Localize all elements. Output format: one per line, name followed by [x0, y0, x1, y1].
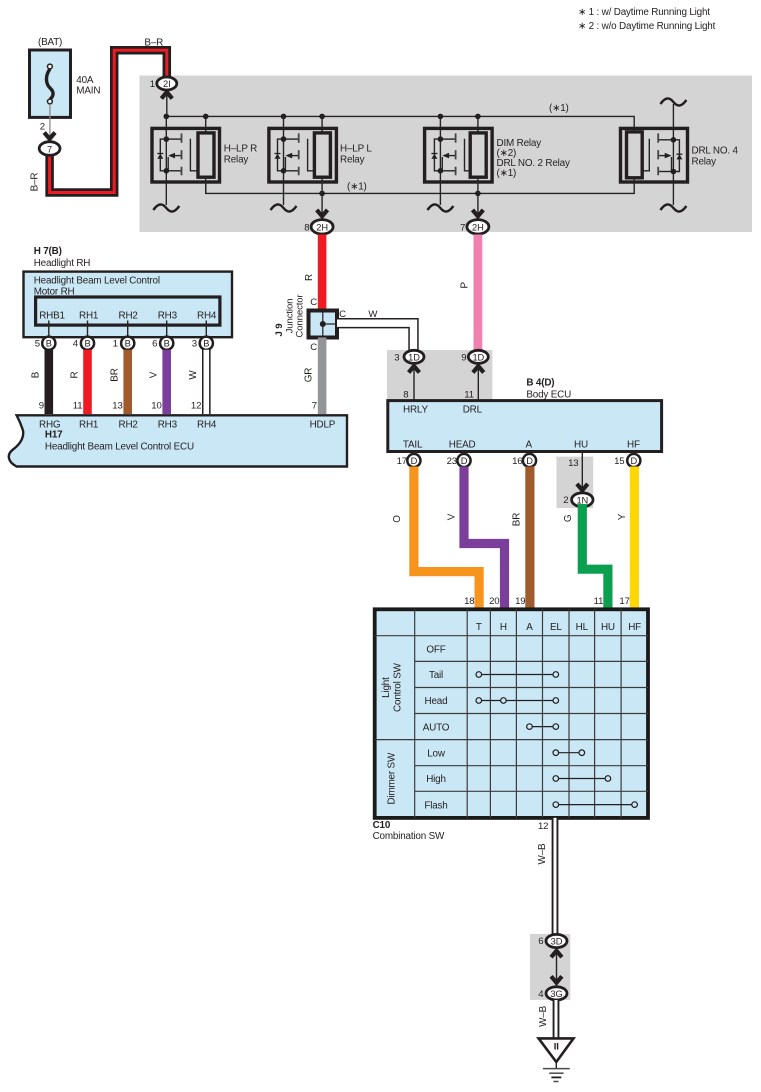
- svg-text:Relay: Relay: [224, 155, 249, 166]
- label P rotated: [459, 282, 470, 289]
- svg-text:∗ 2 : w/o Daytime Running Ligh: ∗ 2 : w/o Daytime Running Light: [578, 21, 716, 32]
- connector oval 2 1N: [572, 493, 593, 507]
- svg-text:2H: 2H: [472, 222, 484, 232]
- pin 4 B: [73, 337, 94, 350]
- arrow down into 2(1N): [577, 484, 588, 490]
- svg-text:W: W: [368, 309, 378, 320]
- pin 8 label body ecu: [403, 390, 408, 401]
- svg-text:RH4: RH4: [197, 419, 217, 430]
- wire P pink from 2H to 1D: [473, 235, 482, 352]
- arrow into connector 7: [44, 133, 55, 139]
- pin 4 label of 3G: [538, 989, 544, 1000]
- svg-text:4: 4: [538, 989, 544, 1000]
- body ecu bottom pin 23 D: [447, 452, 471, 468]
- pin 1 label of 2I: [150, 79, 155, 90]
- svg-text:Tail: Tail: [429, 670, 443, 681]
- svg-text:B: B: [31, 371, 42, 378]
- svg-text:12: 12: [538, 821, 548, 832]
- label W: [368, 309, 378, 320]
- svg-text:1: 1: [113, 339, 118, 350]
- arrow up into 2I: [161, 92, 172, 116]
- svg-text:B: B: [125, 339, 131, 349]
- svg-text:Body ECU: Body ECU: [526, 390, 571, 401]
- label 40A MAIN: [76, 75, 100, 97]
- svg-text:6: 6: [538, 936, 543, 947]
- svg-text:8: 8: [304, 223, 309, 234]
- svg-text:T: T: [476, 622, 482, 633]
- svg-text:2: 2: [40, 122, 45, 133]
- svg-text:10: 10: [151, 401, 161, 412]
- wire W white motor to ECU: [188, 350, 206, 414]
- svg-text:Low: Low: [427, 748, 446, 759]
- svg-text:H17: H17: [45, 430, 63, 441]
- gray panel behind 1N connector: [556, 457, 593, 508]
- svg-text:Connector: Connector: [295, 293, 306, 337]
- svg-text:11: 11: [464, 390, 474, 401]
- label (*1) top: [549, 103, 569, 114]
- svg-text:AUTO: AUTO: [423, 722, 450, 733]
- fuse 40A MAIN: [30, 50, 71, 142]
- connector oval 3 1D: [404, 350, 424, 363]
- svg-text:(∗1): (∗1): [549, 103, 569, 114]
- svg-text:6: 6: [152, 339, 157, 350]
- svg-text:Dimmer SW: Dimmer SW: [387, 752, 398, 804]
- note w/o DRL: [578, 21, 716, 32]
- svg-text:H–LP L: H–LP L: [340, 144, 372, 155]
- label H-LP L Relay: [340, 144, 372, 166]
- svg-text:Headlight Beam Level Control: Headlight Beam Level Control: [34, 276, 160, 287]
- pin 3 B: [192, 337, 213, 350]
- wire B black motor to ECU: [31, 350, 49, 414]
- label Junction Connector rotated: [285, 293, 306, 337]
- relay DIM U3: [425, 116, 493, 220]
- relay panel background: [140, 76, 753, 233]
- junction connector J9: [309, 311, 338, 338]
- svg-text:HF: HF: [628, 622, 641, 633]
- svg-text:HEAD: HEAD: [449, 440, 476, 451]
- svg-text:5: 5: [35, 339, 40, 350]
- svg-text:4: 4: [73, 339, 79, 350]
- ground II: [539, 1038, 574, 1081]
- svg-text:EL: EL: [550, 622, 562, 633]
- svg-text:GR: GR: [304, 368, 315, 383]
- label H-LP R Relay: [224, 144, 257, 166]
- wire W white from junction to 3(1D): [337, 323, 414, 352]
- pin 6 B: [152, 337, 173, 350]
- pin 2 label of 1N: [563, 495, 568, 506]
- wire GR gray from junction to HDLP: [318, 338, 327, 415]
- connector oval 7: [39, 142, 60, 156]
- label GR rotated: [304, 368, 315, 383]
- connector oval 4 3G: [546, 987, 567, 1000]
- svg-text:HDLP: HDLP: [310, 419, 336, 430]
- pin 7 label of 2H: [460, 223, 465, 234]
- svg-text:2I: 2I: [163, 79, 171, 89]
- pin 1 B: [113, 337, 135, 350]
- svg-text:D: D: [630, 456, 637, 466]
- svg-text:15: 15: [614, 456, 624, 467]
- svg-text:W–B: W–B: [537, 843, 548, 864]
- svg-text:P: P: [459, 282, 470, 289]
- bottom bus (*1): [206, 178, 635, 194]
- arrow down into 3G: [551, 976, 562, 982]
- svg-text:18: 18: [464, 596, 474, 607]
- svg-text:(BAT): (BAT): [38, 37, 62, 48]
- svg-text:Flash: Flash: [424, 800, 447, 811]
- top bus (*1): [166, 116, 634, 131]
- svg-text:1: 1: [150, 79, 155, 90]
- svg-text:R: R: [69, 371, 80, 378]
- svg-text:B: B: [46, 339, 52, 349]
- svg-text:H–LP R: H–LP R: [224, 144, 257, 155]
- svg-text:17: 17: [397, 456, 407, 467]
- Body ECU labels: [526, 378, 571, 401]
- svg-text:23: 23: [447, 456, 457, 467]
- svg-text:W–B: W–B: [538, 1005, 549, 1026]
- svg-text:HF: HF: [627, 440, 640, 451]
- svg-text:RH3: RH3: [158, 311, 178, 322]
- svg-text:Combination SW: Combination SW: [373, 831, 445, 842]
- svg-text:(∗1): (∗1): [347, 182, 367, 193]
- svg-text:40A: 40A: [76, 75, 94, 86]
- bus junction dots: [164, 114, 481, 197]
- svg-text:O: O: [392, 515, 403, 523]
- svg-text:DRL: DRL: [463, 405, 483, 416]
- svg-text:11: 11: [73, 401, 83, 412]
- svg-text:13: 13: [112, 401, 122, 412]
- svg-text:HRLY: HRLY: [403, 405, 428, 416]
- svg-text:12: 12: [191, 401, 201, 412]
- svg-text:TAIL: TAIL: [403, 440, 423, 451]
- wire BR brown motor to ECU: [110, 350, 128, 414]
- connector oval 2I: [157, 77, 177, 90]
- svg-text:V: V: [447, 513, 458, 520]
- label DRL NO.4 Relay: [692, 146, 739, 168]
- svg-text:Relay: Relay: [340, 155, 365, 166]
- svg-text:13: 13: [568, 458, 578, 469]
- label C10 Combination SW: [373, 820, 445, 842]
- label B-R left rotated: [30, 173, 41, 192]
- svg-text:1D: 1D: [472, 352, 484, 362]
- svg-text:A: A: [526, 440, 533, 451]
- wire V violet HEAD to combination SW: [447, 467, 505, 610]
- svg-text:Light: Light: [381, 677, 392, 698]
- gray panel behind 3D/3G connectors: [530, 934, 570, 1000]
- connector oval 7 2H: [467, 220, 489, 234]
- svg-text:8: 8: [403, 390, 408, 401]
- wire R red motor to ECU: [69, 350, 87, 414]
- svg-text:Headlight Beam Level Control E: Headlight Beam Level Control ECU: [45, 441, 194, 452]
- svg-text:RH2: RH2: [119, 311, 138, 322]
- svg-text:D: D: [411, 456, 418, 466]
- svg-text:17: 17: [619, 596, 629, 607]
- pin 5 B: [35, 337, 56, 350]
- svg-text:RHB1: RHB1: [39, 311, 65, 322]
- svg-text:3G: 3G: [550, 989, 562, 999]
- combination SW pin labels top: [464, 596, 630, 607]
- connector oval 8 2H: [311, 220, 333, 234]
- svg-text:MAIN: MAIN: [76, 86, 100, 97]
- Body ECU box: [388, 401, 662, 452]
- svg-text:HU: HU: [601, 622, 615, 633]
- H17 ECU box: [9, 415, 347, 466]
- body ecu bottom pin 13: [568, 452, 582, 495]
- label (*1) bottom: [347, 182, 367, 193]
- svg-text:2: 2: [563, 495, 568, 506]
- svg-text:19: 19: [515, 596, 525, 607]
- svg-text:B–R: B–R: [30, 173, 41, 192]
- svg-text:H: H: [500, 622, 507, 633]
- svg-text:HL: HL: [576, 622, 589, 633]
- ECU pin numbers top: [39, 401, 317, 412]
- svg-text:Control SW: Control SW: [393, 662, 404, 712]
- svg-text:B: B: [164, 339, 170, 349]
- svg-text:20: 20: [489, 596, 499, 607]
- wire BR brown A to combination SW: [512, 467, 530, 610]
- svg-text:DRL NO. 4: DRL NO. 4: [692, 146, 739, 157]
- pin 6 label of 3D: [538, 936, 543, 947]
- body ecu bottom pin 16 D: [512, 452, 536, 468]
- pin 2 of fuse: [40, 122, 45, 133]
- wire W-B from 3G to ground: [538, 1000, 556, 1039]
- svg-text:3: 3: [192, 339, 197, 350]
- svg-text:RH1: RH1: [79, 419, 99, 430]
- label C right of junction: [339, 309, 346, 320]
- svg-text:16: 16: [512, 456, 522, 467]
- svg-text:J 9: J 9: [274, 324, 285, 337]
- svg-text:RH1: RH1: [79, 311, 99, 322]
- pin 3 label of 1D: [394, 353, 399, 364]
- wire R red from 2H to junction connector: [318, 235, 327, 312]
- svg-text:A: A: [526, 622, 533, 633]
- svg-text:HU: HU: [574, 440, 588, 451]
- svg-text:7: 7: [47, 144, 52, 154]
- svg-text:1D: 1D: [408, 352, 420, 362]
- svg-text:W: W: [188, 370, 199, 380]
- svg-text:OFF: OFF: [426, 644, 445, 655]
- svg-text:B 4(D): B 4(D): [526, 378, 554, 389]
- label J9 rotated: [274, 324, 285, 337]
- pin 9 label of 1D: [461, 353, 466, 364]
- svg-text:7: 7: [312, 401, 317, 412]
- pin 8 label of 2H: [304, 223, 309, 234]
- wire V violet motor to ECU: [149, 350, 167, 414]
- svg-text:V: V: [149, 371, 160, 378]
- wire O orange TAIL to combination SW: [392, 467, 479, 610]
- arrow into 8(2H): [317, 210, 328, 216]
- wire W-B from SW to 3D: [537, 818, 555, 935]
- headlight motor box: [24, 272, 233, 338]
- body ecu bottom pin 17 D: [397, 452, 421, 468]
- svg-text:Head: Head: [425, 696, 448, 707]
- label (BAT): [38, 37, 62, 48]
- svg-text:3: 3: [394, 353, 399, 364]
- relay H-LP L U2: [269, 116, 337, 220]
- svg-text:9: 9: [39, 401, 44, 412]
- svg-text:D: D: [461, 456, 468, 466]
- svg-text:RH3: RH3: [158, 419, 178, 430]
- arrow up into 3D: [551, 948, 562, 986]
- svg-text:G: G: [563, 515, 574, 523]
- svg-text:Relay: Relay: [692, 157, 717, 168]
- label C above junction: [310, 297, 317, 308]
- pin 11 label body ecu: [464, 390, 474, 401]
- svg-text:Y: Y: [617, 513, 628, 520]
- svg-text:9: 9: [461, 353, 466, 364]
- connector oval 9 1D: [468, 350, 488, 363]
- svg-text:II: II: [554, 1042, 560, 1053]
- wire Y yellow HF to combination SW: [617, 467, 635, 610]
- svg-text:B: B: [84, 339, 90, 349]
- svg-text:(∗1): (∗1): [497, 168, 517, 179]
- label R rotated: [304, 274, 315, 281]
- svg-text:RH2: RH2: [119, 419, 138, 430]
- wire G green 1N to combination SW: [563, 504, 608, 609]
- svg-text:BR: BR: [110, 368, 121, 381]
- svg-text:R: R: [304, 274, 315, 281]
- label DIM Relay: [497, 138, 570, 179]
- svg-text:1N: 1N: [576, 495, 588, 505]
- arrow up into 3(1D): [409, 364, 420, 401]
- svg-text:B–R: B–R: [144, 38, 163, 49]
- svg-text:C: C: [339, 309, 346, 320]
- wire B-R from fuse to relay panel: [50, 50, 167, 192]
- pin 12 label: [538, 821, 548, 832]
- svg-text:∗ 1 : w/ Daytime Running Light: ∗ 1 : w/ Daytime Running Light: [578, 7, 710, 18]
- body ecu bottom pin 15 D: [614, 452, 640, 468]
- gray panel behind 1D connectors: [387, 350, 492, 401]
- svg-text:H 7(B): H 7(B): [34, 246, 62, 257]
- connector oval 6 3D: [546, 934, 567, 947]
- svg-text:7: 7: [460, 223, 465, 234]
- svg-text:2H: 2H: [316, 222, 328, 232]
- svg-text:C: C: [310, 342, 317, 353]
- arrow into 7(2H): [473, 210, 484, 216]
- svg-text:C10: C10: [373, 820, 391, 831]
- svg-text:D: D: [526, 456, 533, 466]
- svg-text:BR: BR: [512, 513, 523, 526]
- label B-R top: [144, 38, 163, 49]
- svg-text:High: High: [426, 774, 446, 785]
- relay H-LP R U1: [152, 116, 220, 211]
- combination switch table: [375, 609, 648, 818]
- svg-text:RH4: RH4: [197, 311, 217, 322]
- arrow up into 9(1D): [473, 364, 484, 401]
- label C below junction: [310, 342, 317, 353]
- headlight component labels: [34, 246, 91, 269]
- svg-text:B: B: [203, 339, 209, 349]
- svg-text:3D: 3D: [551, 937, 563, 947]
- note w/ DRL: [578, 7, 710, 18]
- svg-text:Headlight RH: Headlight RH: [34, 258, 91, 269]
- relay DRL NO.4 U4: [621, 98, 688, 211]
- svg-text:11: 11: [594, 596, 604, 607]
- svg-text:C: C: [310, 297, 317, 308]
